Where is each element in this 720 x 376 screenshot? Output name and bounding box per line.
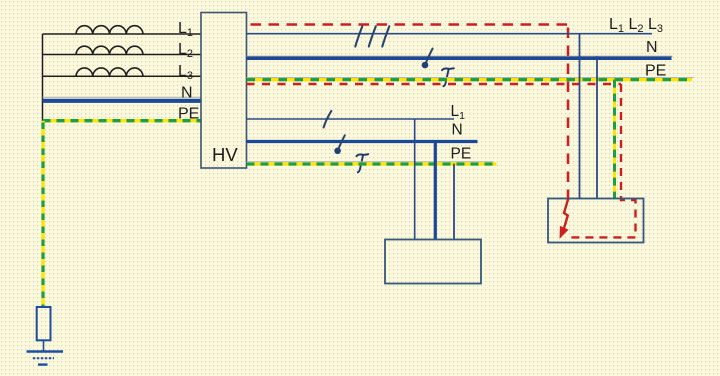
earth T mark near top PE bbox=[442, 68, 454, 86]
wire L3 bbox=[43, 75, 202, 77]
drop L1 to left appliance bbox=[414, 119, 416, 240]
wire L1 (transformer secondary to HV box) bbox=[43, 33, 202, 35]
switch slashes on top feeder (3-pole breaker) bbox=[355, 26, 389, 46]
label N (lower feeder) bbox=[452, 122, 463, 139]
wire L2 bbox=[43, 54, 202, 56]
wire PE top feeder (green/yellow) bbox=[247, 78, 694, 80]
riser L (blue vertical 1 to right appliance) bbox=[579, 34, 581, 199]
drop N to left appliance (thick) bbox=[434, 142, 437, 240]
inductor winding L2 bbox=[76, 46, 143, 54]
label PE (top right) bbox=[645, 63, 666, 80]
PE earthing conductor vertical (green/yellow) bbox=[41, 121, 44, 307]
svg-text:L1 L2 L3: L1 L2 L3 bbox=[609, 16, 663, 35]
appliance box left (load) bbox=[385, 240, 481, 284]
switch on N lower feeder (slash with dot) bbox=[334, 135, 344, 154]
label N (left) bbox=[181, 85, 193, 102]
appliance box right (faulty equipment) bbox=[548, 199, 644, 243]
wire N left (thick blue neutral) bbox=[43, 97, 202, 101]
svg-text:N: N bbox=[452, 122, 463, 139]
switch slash on L1 lower feeder bbox=[324, 111, 332, 128]
wire N lower feeder (thick blue) bbox=[247, 140, 478, 143]
wire PE lower feeder (green/yellow) bbox=[247, 162, 497, 164]
earth T mark near lower PE bbox=[356, 154, 368, 172]
label L1 (lower feeder) bbox=[451, 103, 466, 122]
label N (top right) bbox=[646, 39, 658, 56]
switch on N top feeder (slash with dot) bbox=[422, 49, 433, 69]
HV box (transformer substation) bbox=[201, 13, 247, 169]
wire L1 lower feeder bbox=[247, 118, 455, 120]
earth electrode resistance RB bbox=[37, 307, 51, 340]
inductor winding L1 bbox=[76, 26, 143, 34]
inductor winding L3 bbox=[76, 68, 143, 76]
label L2 (left) bbox=[178, 41, 193, 60]
svg-text:PE: PE bbox=[645, 63, 666, 80]
wire resistor to ground bbox=[43, 340, 45, 351]
label L1 (left) bbox=[178, 20, 193, 39]
svg-text:PE: PE bbox=[178, 106, 199, 123]
red fault path 1 horizontal (top) bbox=[247, 23, 569, 26]
label PE (lower feeder) bbox=[451, 146, 472, 163]
riser N (blue vertical 2 to right appliance) bbox=[596, 56, 598, 198]
red fault path 2 horizontal bbox=[247, 83, 622, 85]
svg-text:PE: PE bbox=[451, 146, 472, 163]
ground symbol bbox=[27, 352, 64, 365]
wire PE left (green/yellow) bbox=[43, 119, 202, 122]
fault lightning arrow inside right box bbox=[560, 199, 568, 237]
svg-text:N: N bbox=[181, 85, 193, 102]
svg-text:N: N bbox=[646, 39, 658, 56]
label L3 (left) bbox=[178, 63, 193, 82]
red fault path 1 vertical bbox=[567, 25, 570, 201]
wire N top feeder (thick blue) bbox=[247, 56, 673, 58]
drop PE to left appliance bbox=[453, 164, 455, 240]
wire L phases top feeder (thin navy) bbox=[247, 33, 653, 35]
svg-text:HV: HV bbox=[212, 144, 238, 165]
wire: left star-point bus vertical bbox=[42, 34, 44, 121]
label PE (left) bbox=[178, 106, 199, 123]
riser PE (green/yellow vertical to right appliance) bbox=[613, 80, 616, 199]
red fault path 2 vertical bbox=[566, 84, 636, 237]
label L1 L2 L3 (top right) bbox=[609, 16, 663, 35]
